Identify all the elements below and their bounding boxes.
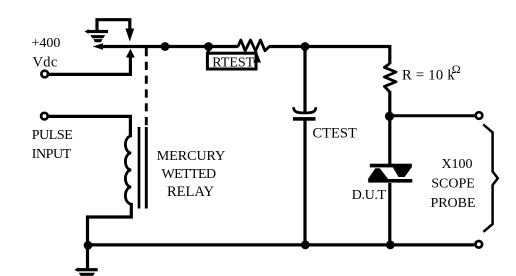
wire: +400 feed [49, 57, 131, 75]
terminal circle: pulse input [41, 113, 48, 120]
svg-text:PULSE: PULSE [32, 128, 73, 143]
RTEST label box with leader [207, 47, 256, 71]
capacitor CTEST [293, 107, 316, 121]
wire: CTEST bottom lead [303, 121, 306, 246]
svg-text:D.U.T: D.U.T [352, 188, 387, 203]
junction node E (bottom left) [84, 241, 93, 250]
wire: pulse input feed [49, 116, 131, 137]
svg-text:CTEST: CTEST [313, 126, 357, 142]
mechanical link (dashed) [145, 48, 148, 127]
svg-text:MERCURY: MERCURY [157, 149, 225, 164]
relay core bar 2 [145, 127, 148, 209]
wire: DUT bottom lead [388, 183, 391, 245]
junction node C (bus x=305, CTEST tap) [301, 42, 310, 51]
svg-text:Ω: Ω [452, 62, 461, 76]
wire: top bus (left arrow end) [93, 43, 103, 50]
svg-text:RELAY: RELAY [167, 184, 215, 200]
wire: right branch top [388, 45, 391, 64]
junction node F (CTEST bottom) [301, 241, 310, 250]
svg-text:SCOPE: SCOPE [431, 177, 475, 192]
arrow: contact loop down into bus [125, 29, 134, 42]
junction node B (bus x=208.5, RTEST box corner) [204, 42, 213, 51]
DIAC D.U.T [368, 164, 413, 183]
resistor RTEST (zigzag) [238, 40, 269, 51]
relay core bar 1 [138, 127, 141, 209]
wire: scope probe top lead [390, 114, 475, 117]
terminal circle: scope top [476, 112, 483, 119]
svg-text:RTEST: RTEST [212, 55, 254, 70]
arrow: +400 feed up into bus [126, 49, 135, 58]
ground GND2 (bottom left) [74, 245, 97, 276]
svg-text:X100: X100 [441, 157, 472, 172]
wire: coil bottom to ground bus [88, 203, 132, 245]
junction node G (DUT bottom) [386, 241, 395, 250]
terminal circle: +400 input [41, 71, 48, 78]
ground GND1 (top left) [85, 19, 109, 43]
svg-text:Vdc: Vdc [33, 55, 58, 71]
junction node A (bus x=165) [161, 42, 170, 51]
terminal circle: scope bottom [476, 241, 483, 248]
wire: CTEST top lead [303, 47, 306, 113]
wire: R to DUT [388, 91, 391, 164]
svg-text:R = 10 k: R = 10 k [402, 68, 455, 84]
wire: bottom bus [88, 243, 474, 246]
resistor R (vertical zigzag) [384, 64, 396, 93]
svg-text:WETTED: WETTED [162, 167, 216, 182]
relay coil K1 [125, 136, 131, 204]
wire: relay contact loop [97, 20, 130, 31]
svg-text:+400: +400 [32, 36, 61, 51]
arrow: RTEST leader to zigzag [253, 53, 261, 63]
svg-text:PROBE: PROBE [430, 196, 475, 211]
curly brace: scope probe span [483, 124, 498, 231]
junction node D (scope tap) [385, 112, 394, 121]
svg-text:INPUT: INPUT [32, 147, 72, 162]
